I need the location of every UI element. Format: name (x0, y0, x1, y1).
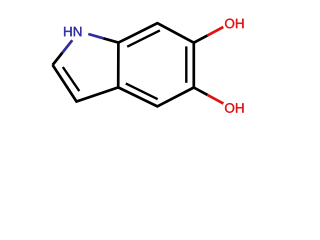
bond N1-C7a black half (103, 38, 118, 42)
label OH (O6, top) (225, 19, 244, 29)
bond N1-C2 black half (53, 53, 63, 65)
bond N1-C7a blue half (88, 34, 103, 38)
double bond C4=C3a inner line (126, 84, 158, 100)
double bond C2=C3 inner line (63, 67, 80, 91)
double bond C7a=C7 inner line (127, 30, 160, 46)
label OH (O5, bottom) (225, 103, 244, 113)
bond C5-O5 red half (208, 95, 224, 104)
double bond C6=C5 inner line (185, 46, 187, 82)
label HN (N1) (64, 27, 81, 36)
bond C5-O5 black half (194, 88, 208, 95)
bond C6-O6 black half (194, 35, 208, 42)
bond N1-C2 blue half (62, 40, 72, 52)
pyrrole ring black bonds: C2-C3, C3-C3a, fused C3a-C7a (53, 43, 119, 102)
benzene ring perimeter: C7a-C7-C6-C5-C4-C3a (118, 23, 194, 106)
bond C6-O6 red half (208, 27, 224, 35)
